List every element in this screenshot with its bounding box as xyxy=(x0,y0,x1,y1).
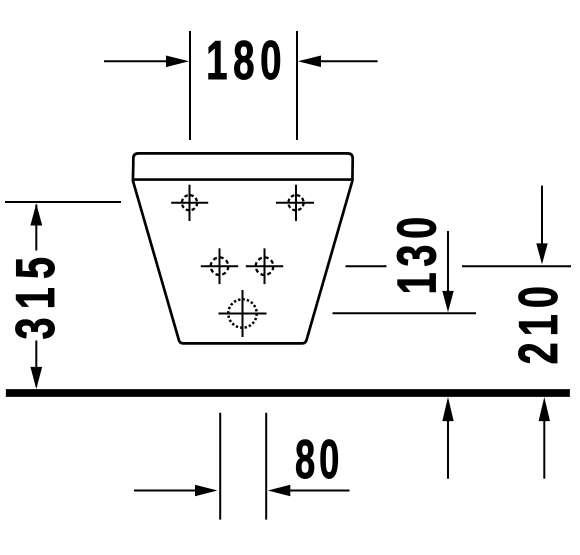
fixture body outline xyxy=(133,153,353,343)
dim 180 left arrow xyxy=(104,56,189,68)
dim 210 lower arrow below floor xyxy=(539,397,550,479)
hole upper-left crosshair xyxy=(171,185,208,221)
dim 180 right arrow xyxy=(298,56,378,68)
hole mid-right crosshair xyxy=(246,248,283,284)
hole upper-right crosshair xyxy=(276,185,314,221)
dim 80 left arrow xyxy=(134,485,217,496)
dim 210 reference line right segment xyxy=(462,265,571,267)
dim 80 extension line left xyxy=(219,413,221,520)
dim 315 dimension line xyxy=(35,205,37,387)
svg-text:210: 210 xyxy=(509,280,570,364)
dim 315 up arrowhead xyxy=(30,204,42,226)
dim 80 right arrow xyxy=(268,485,350,496)
dim 210 upper arrow xyxy=(536,186,547,265)
hole mid-left crosshair xyxy=(201,248,238,284)
dim 130 upper arrow xyxy=(442,231,453,312)
dim 80 extension line right xyxy=(265,413,267,520)
svg-text:80: 80 xyxy=(295,429,343,490)
hole mid-left circle xyxy=(211,257,229,275)
dim 180 extension line right xyxy=(296,31,298,140)
hole upper-left circle xyxy=(182,195,197,210)
hole mid-right circle xyxy=(256,257,274,275)
floor line xyxy=(6,389,570,397)
dim 210 reference line left segment xyxy=(346,265,387,267)
svg-text:130: 130 xyxy=(387,211,448,294)
dim 315 top tick xyxy=(5,201,121,203)
dim 315 down arrowhead xyxy=(30,367,42,389)
svg-text:315: 315 xyxy=(6,249,67,340)
svg-text:180: 180 xyxy=(206,31,287,92)
body rim line xyxy=(132,178,353,181)
hole bottom-center crosshair xyxy=(219,290,267,337)
dim 130 reference line xyxy=(333,312,477,314)
dim 130 lower arrow below floor xyxy=(442,397,453,479)
hole bottom-center dotted circle xyxy=(228,299,256,327)
hole upper-right circle xyxy=(288,195,303,210)
dim 180 extension line left xyxy=(189,31,191,140)
